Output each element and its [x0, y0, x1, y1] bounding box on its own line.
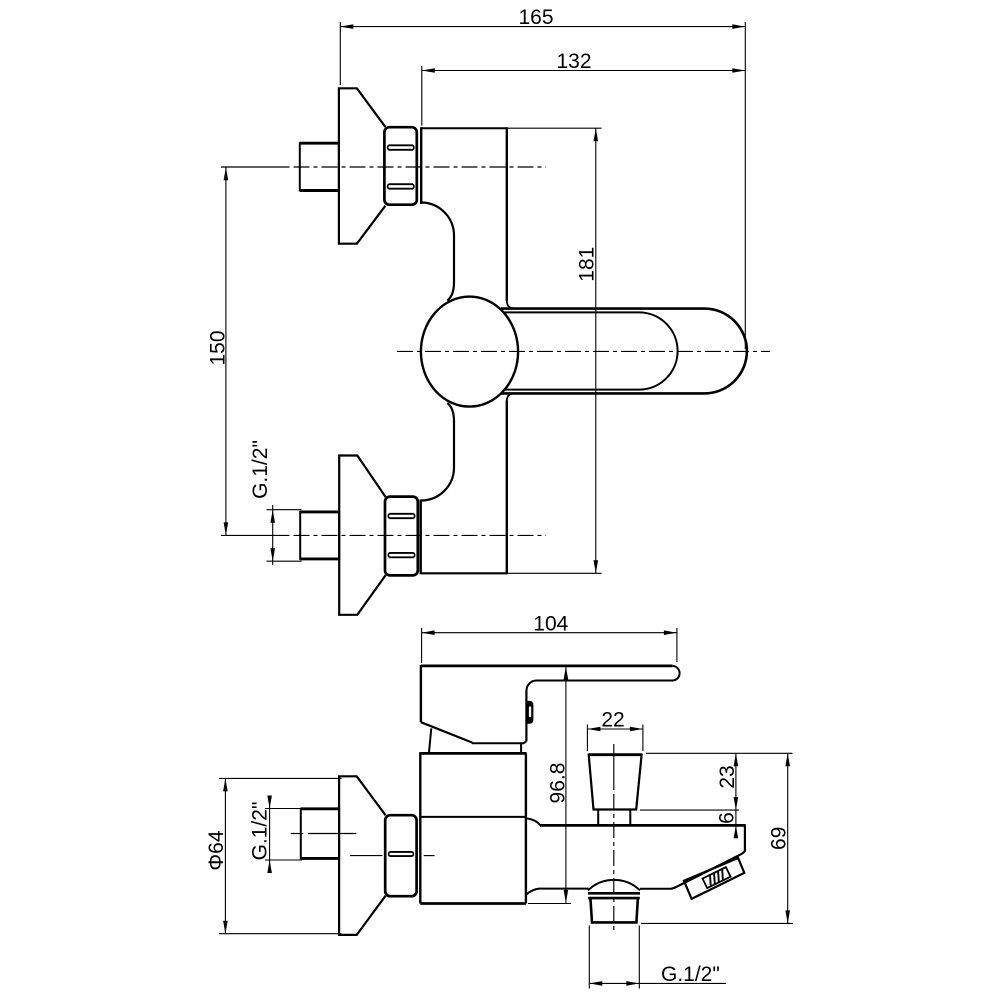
centerline faucet axis (front): [350, 855, 435, 857]
svg-text:23: 23: [716, 765, 739, 788]
spout right edge (front): [742, 824, 745, 854]
dimension phi64 (escutcheon diameter front): [205, 778, 341, 933]
centerline upper inlet axis (plan): [221, 166, 546, 168]
dimension 23 (knob height): [640, 753, 793, 837]
lower hex nut (plan): [385, 497, 418, 576]
svg-text:181: 181: [576, 247, 599, 282]
upper escutcheon flange (plan): [339, 88, 386, 243]
fillet body to lever top (plan): [507, 300, 514, 308]
dimension 22 (diverter knob width): [587, 709, 643, 751]
dimension G.1/2 outlet thread (front): [589, 926, 726, 989]
handle paddle tip (front): [527, 666, 680, 691]
upper inlet nipple (plan): [300, 143, 339, 190]
body neck outline lower (plan): [421, 403, 454, 501]
centerline diverter and outlet axis (front): [613, 744, 615, 931]
outlet dome (front): [526, 880, 671, 895]
svg-text:G.1/2": G.1/2": [249, 802, 272, 861]
svg-text:150: 150: [206, 330, 229, 365]
dimension 69 (outlet drop): [641, 753, 793, 923]
handle paddle left edge (front): [420, 665, 422, 722]
body bottom edge (front): [420, 902, 526, 905]
aerator box (front): [684, 858, 744, 899]
svg-text:132: 132: [556, 50, 591, 73]
wall nipple (front): [301, 809, 339, 859]
svg-text:6: 6: [716, 812, 739, 824]
svg-text:96.8: 96.8: [547, 763, 570, 804]
body mid joint line (front): [420, 816, 526, 818]
centerline lower inlet axis (plan): [221, 534, 546, 536]
handle grip right edge (front): [525, 691, 527, 742]
cartridge dome left edge (front): [429, 728, 431, 752]
faucet body right edge lower (plan): [506, 401, 508, 575]
svg-text:G.1/2": G.1/2": [249, 440, 272, 499]
faucet body left edge lower (plan): [420, 500, 422, 575]
svg-text:104: 104: [533, 612, 568, 635]
escutcheon flange (front): [339, 776, 386, 935]
svg-text:Φ64: Φ64: [205, 830, 228, 870]
upper hex nut (plan): [384, 127, 416, 205]
diverter knob (front): [589, 755, 642, 810]
handle grip underside (front): [472, 741, 527, 743]
lower inlet nipple (plan): [300, 512, 339, 559]
body left edge (front): [419, 752, 421, 903]
svg-text:G.1/2": G.1/2": [661, 963, 720, 986]
dimension 104 (front handle length): [422, 612, 677, 663]
dimension 181 (plan body height): [508, 128, 602, 573]
hex nut (front): [385, 815, 416, 896]
svg-text:165: 165: [518, 6, 553, 29]
dimension 132 (plan body to handle tip): [422, 50, 746, 125]
svg-text:69: 69: [768, 827, 791, 850]
body right edge (front): [525, 753, 527, 903]
cartridge dome seam (front): [520, 743, 522, 752]
faucet body bottom edge (plan): [421, 572, 507, 574]
outlet hose nut (front): [588, 893, 640, 922]
handle cartridge bulb (plan): [421, 297, 518, 407]
dimension 96.8 (front height): [528, 667, 571, 904]
dimension 165 (plan overall width): [340, 6, 745, 349]
centerline handle axis (plan): [397, 350, 770, 352]
faucet body top edge (plan): [421, 127, 507, 129]
centerline wall nipple axis (front): [291, 833, 357, 835]
dimension G.1/2 lower inlet thread (plan): [249, 440, 301, 565]
faucet body left edge upper (plan): [420, 127, 422, 204]
lower escutcheon flange (plan): [339, 456, 385, 615]
fillet body to lever bottom (plan): [507, 394, 514, 402]
faucet body right edge upper (plan): [506, 127, 508, 301]
svg-text:22: 22: [601, 709, 624, 732]
body top edge (front): [420, 752, 526, 755]
handle lever inner edge (plan): [504, 312, 678, 389]
handle paddle top edge (front): [421, 665, 672, 668]
aerator hatch marks: [703, 867, 731, 888]
spout underside (front): [671, 854, 742, 889]
handle lever outer outline (plan): [501, 309, 747, 394]
spout shelf top edge (front): [526, 818, 745, 825]
handle underside chamfer (front): [421, 722, 472, 742]
dimension 150 (plan inlet spacing): [206, 167, 229, 535]
diverter stem (front): [598, 810, 630, 826]
dimension 6 (shelf offset): [716, 812, 739, 838]
body neck outline upper (plan): [421, 203, 454, 301]
dimension G.1/2 wall nipple thread (front): [249, 796, 303, 874]
handle indicator button (front): [526, 701, 533, 724]
